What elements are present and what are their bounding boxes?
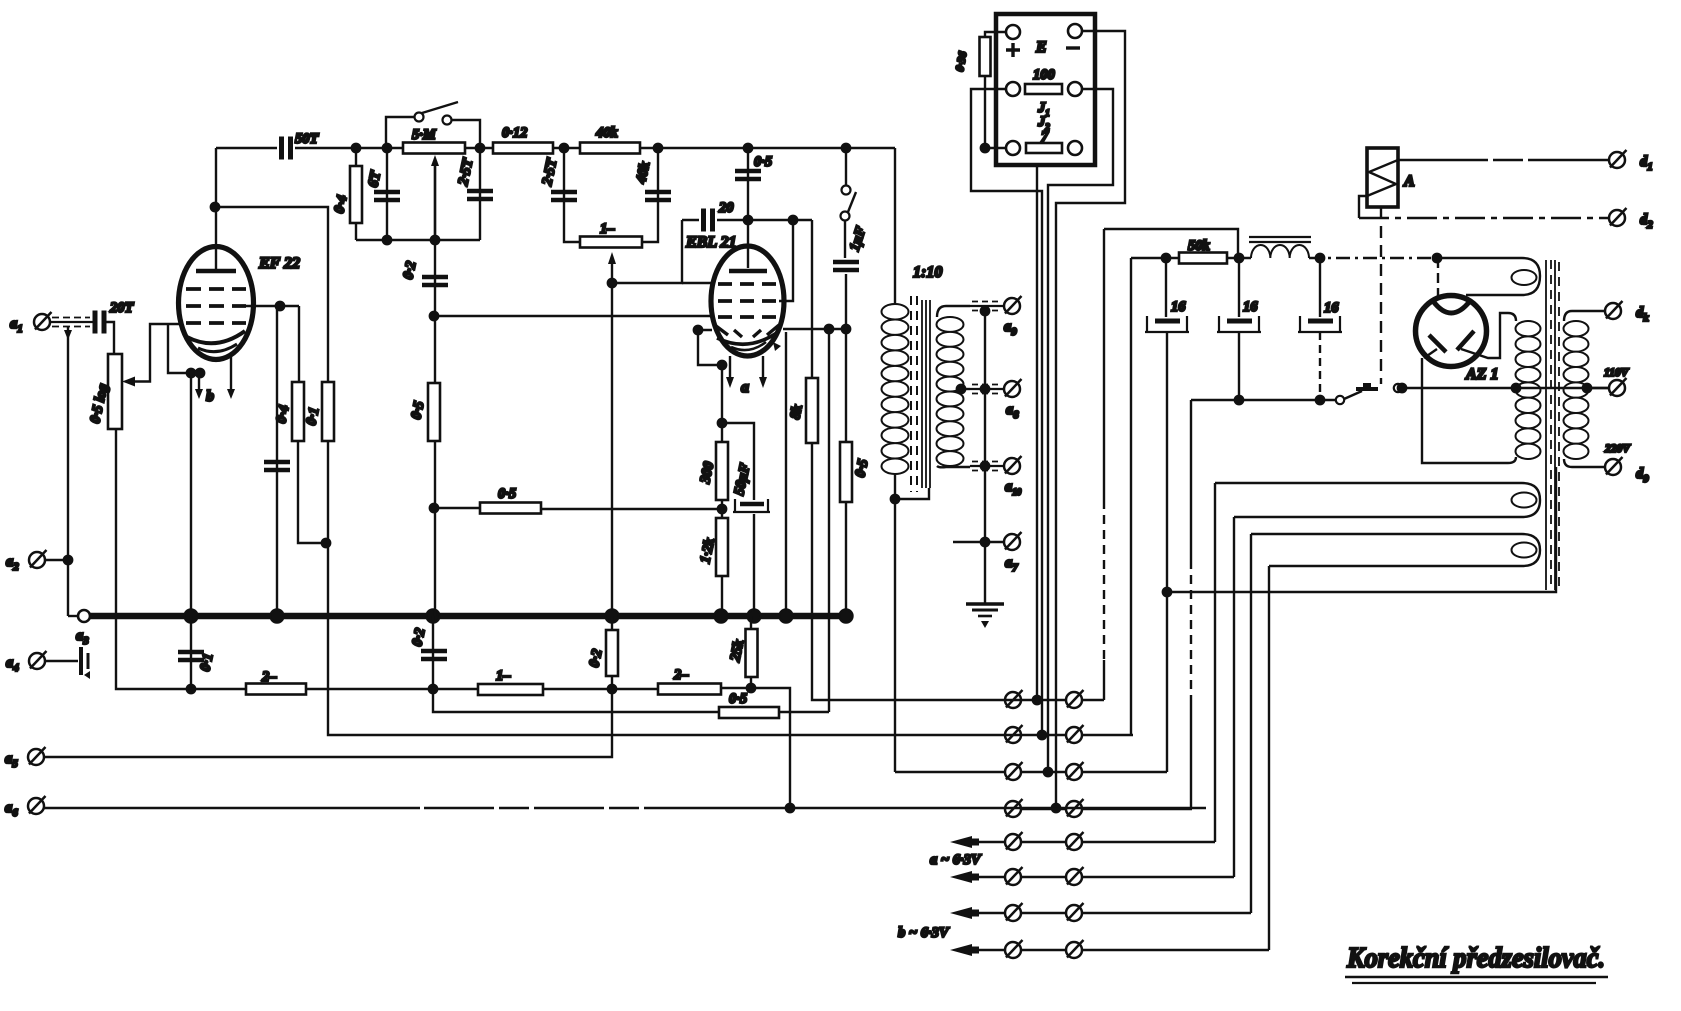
wire - 0.5k drop through bus to 0.5 resistor row [828,329,830,712]
wire - switch right leg [452,120,480,240]
svg-text:a10: a10 [1005,479,1022,497]
node a8 terminal [1004,379,1022,397]
wire - 1.2k to bus [721,500,723,616]
wire - 16 first to row3 junction [1166,332,1168,592]
wire - 50k to choke [1227,257,1251,259]
tube EF22 envelope [179,247,254,360]
svg-text:0·36: 0·36 [954,50,969,72]
svg-text:100: 100 [1033,67,1055,83]
wire - grid node to 20 cap corner [612,220,682,283]
resistor 300 [716,442,728,500]
terminal row8 pair [1005,940,1023,958]
capacitor 0.2 (below bus) [432,616,434,689]
wire - a9 shielded segment [970,305,1003,307]
capacitor 2.5T (right) [564,148,580,242]
svg-text:a7: a7 [1005,555,1018,574]
wire - row3 line [895,771,1167,773]
svg-text:5·M: 5·M [412,127,437,143]
wire - screen drop to grid2 [779,220,793,301]
svg-text:0·2: 0·2 [586,648,605,669]
terminal row5 pair [1005,832,1023,850]
svg-text:dk: dk [1636,305,1649,324]
wire - primary bottom to junction [894,474,896,499]
transformer filament band B [1251,534,1540,566]
svg-text:6T: 6T [365,169,384,189]
ground - chassis symbol at a4 [79,647,83,675]
wire - row2 line [1004,734,1133,736]
tube EBL21 anode bar [729,269,767,274]
ground bus (thick) [90,613,846,620]
capacitor 6T [386,148,388,240]
node a9 terminal [1004,296,1022,314]
wire - 0.12 to 40k [553,147,580,149]
wire - cap bus row to mains switch [1191,399,1335,401]
capacitor 16 (second) [1238,258,1240,317]
wire - a3 corner [68,615,78,617]
svg-text:16: 16 [1171,299,1186,315]
transformer 1:10 primary winding [882,304,909,474]
svg-text:1:10: 1:10 [913,264,942,281]
svg-text:EF 22: EF 22 [258,255,300,272]
svg-text:1–: 1– [496,668,511,684]
transformer mains winding [1564,321,1589,459]
wire - mains bottom to 220V d9 [1564,459,1604,467]
capacitor (screen bypass) [264,462,290,470]
svg-text:40k: 40k [633,159,654,185]
svg-text:0·1: 0·1 [197,652,216,673]
wire - pot wiper to EF22 grid [131,324,181,382]
resistor 8k [806,378,818,443]
svg-text:a4: a4 [6,655,19,674]
tube EBL21 cathode arcs [717,332,778,344]
resistor 0.5 (EBL21 side) [840,442,852,502]
wire - a1 shielded lead [50,321,93,323]
wire - 1- wiper to grid node [611,262,613,283]
wire - 1- to 2- right [543,688,658,690]
wire - top rail 50T to 5M [295,147,403,149]
wire - 8k to terminal row 1 [812,443,1004,700]
svg-text:a2: a2 [6,554,19,573]
svg-text:220V: 220V [1604,443,1631,455]
wire - band B leads down to rows 7/8 [1250,534,1252,913]
svg-text:a ~ 6·3V: a ~ 6·3V [930,852,982,868]
wire - primary bottom drop to row3 [894,499,896,772]
node a10 terminal [1004,456,1022,474]
node d2 terminal [1609,208,1627,226]
svg-text:2·5T: 2·5T [455,156,477,188]
switch (mains) [1336,396,1344,404]
resistor 0.5 (wiper chain) [428,383,440,441]
wire - anode feed corner to transformer [894,148,896,305]
wire - A box hook to d2 line [1359,196,1367,218]
node d1 terminal [1609,150,1627,168]
terminal row3 right [1066,762,1084,780]
wire - 2- row left segment [191,688,246,690]
wire - E bottom edge drop to row1 [1036,165,1038,700]
choke core bars [1249,236,1311,238]
resistor 0.36 [985,32,1006,37]
wire - 0.1 top to anode node [215,207,328,382]
node - a6 row junction [786,804,794,812]
node a3 terminal (open circle on bus) [78,610,90,622]
node a2 terminal [29,550,47,568]
wire - EF22 cathode to ground bus [190,373,192,616]
svg-text:0·5: 0·5 [852,458,871,479]
wire - switch left leg [386,117,414,148]
wire - g3 line to EBL21 [434,315,711,317]
capacitor 16 (first) [1165,258,1167,317]
svg-text:a1: a1 [10,316,23,335]
resistor 0.5 (feedback) [719,707,779,718]
label - [1066,46,1080,49]
resistor 0.4 [292,382,304,441]
tube EF22 anode bar [196,269,236,274]
resistor 50k [1131,257,1179,259]
wire - a7 stub [953,541,1003,543]
wire - bottom rail of tone block [356,239,480,241]
label + [1006,43,1020,57]
wire - g2 bypass drop [276,306,278,616]
node a4 terminal [29,651,47,669]
wire - 5M to 0.12 [465,147,493,149]
transformer 1:10 core [910,296,912,492]
terminal row1 left [1005,690,1023,708]
svg-text:110V: 110V [1604,367,1630,379]
wire - 0.4 bottom elbow [298,441,328,543]
wire a4 to chassis ground [45,660,78,662]
transformer 1:10 shield [921,300,923,488]
wire - 0.5 tap left [434,507,480,509]
resistor 0.5 (cathode tap) [480,503,541,514]
wire - grid node to EBL21 grid1 [682,282,711,284]
fuse A zigzag [1367,160,1398,196]
svg-text:0·5: 0·5 [754,154,772,170]
capacitor 16 (third) [1319,258,1321,317]
node a5 terminal [28,747,46,765]
wire - grid line down to cathode junction [168,324,200,373]
svg-text:50k: 50k [1188,238,1211,254]
tube EBL21 envelope [711,246,784,356]
transformer HV winding [1516,321,1541,459]
svg-text:1–: 1– [600,221,615,237]
resistor (in block bottom) [1026,143,1062,153]
wire - 20 cap left lead [682,219,699,221]
wire - filament pin b arrows [198,375,200,390]
svg-text:0·2: 0·2 [400,260,419,281]
resistor 2- (right) [658,684,721,695]
wire a6 long line to terminal row 4 [44,807,420,809]
svg-text:AZ 1: AZ 1 [1465,366,1498,383]
wire - E top-right route to row4 [1056,31,1125,808]
wire - 20T to potentiometer top [104,322,114,354]
node a7 terminal [1004,532,1022,550]
wire - 2- to 1- row [306,688,478,690]
terminal row2 left [1005,725,1023,743]
capacitor 20T [95,311,104,334]
resistor 0.1 [322,382,334,441]
wire - 1uF to diode row and bus [845,274,847,616]
switch (tone, top) [415,113,424,122]
transformer core [1545,260,1547,590]
potentiometer 0.5 log [108,354,122,429]
svg-text:0·4: 0·4 [273,404,292,425]
node - rectifier output junction [1433,254,1441,262]
svg-text:0·5: 0·5 [498,486,516,502]
wire - 2- right to corner drop [721,688,790,808]
svg-text:d2: d2 [1640,212,1653,231]
svg-text:16: 16 [1243,299,1258,315]
resistor 1- (tone) [580,237,642,248]
wire - switch to HV center tap and 110V [1402,387,1609,389]
switch (output, 1uF) [845,148,847,186]
tube AZ1 envelope [1416,296,1487,367]
svg-text:0·4: 0·4 [331,194,350,215]
node 110V terminal [1609,378,1627,396]
resistor 0.4 (top left vertical) [350,166,362,223]
wire - common return vertical [984,308,986,604]
terminal row2 right [1066,725,1084,743]
node d9 terminal [1605,457,1623,475]
resistor 0.2 (below bus right) [611,616,613,689]
wire - d1 line [1398,159,1608,161]
wire - 8k feed corner [811,220,813,378]
wire - 40k to anode feed [640,147,895,149]
resistor 5M [403,143,465,154]
svg-text:0·5: 0·5 [729,691,747,707]
terminal block E outline [996,14,1095,165]
wire - secondary mid tap a8 [957,385,965,393]
terminal row4 left [1005,799,1023,817]
svg-text:a: a [741,379,749,396]
wire - cathode tap row 0.5 [541,508,723,510]
wire a5 line to 0.2 junction [44,689,612,757]
tube AZ1 filament arc [1433,301,1470,313]
wire - pot bottom drop to 2- row [116,429,191,689]
capacitor 20 (NFB) [704,209,713,232]
node a6 terminal [28,796,46,814]
svg-text:300: 300 [697,460,717,486]
terminal row7 pair [1005,903,1023,921]
svg-text:b ~ 6·3V: b ~ 6·3V [898,925,950,941]
svg-text:a6: a6 [5,800,18,819]
svg-text:a8: a8 [1006,402,1019,421]
wire - EBL21 filament pins with arrows [729,356,731,378]
resistor 1- (bottom) [478,684,543,695]
wire - 0.5 feedback right corner [779,711,829,713]
wire - 0.36 to block bottom-left [985,76,1006,148]
wire - junction down to row 3 [1166,592,1168,772]
svg-text:2–: 2– [261,669,277,685]
wire - primary bottom hook to shield [895,488,929,499]
wire - EF22 g2 row to bypass cap drop [246,305,299,307]
wire - 50k left drop to row2 [1130,258,1132,735]
wire - EBL21 cathode hook [698,330,722,365]
capacitor 0.1 (bus left) [190,616,192,689]
ground symbol [966,602,1004,606]
wire - row4 line [1022,808,1192,810]
wire - secondary bottom lead a10 [937,466,970,467]
wire - B+ riser to 50k rail [1103,229,1105,500]
wire - 50uF to bus [753,514,755,616]
wire - mains top to dk [1564,311,1604,321]
capacitor 0.2 (5M wiper chain) [434,162,436,616]
capacitor 2.5T (left) [467,191,493,199]
wire - a1 shield drop to a2/a3 [67,326,69,616]
svg-text:1μF: 1μF [847,224,870,253]
wire - g2 feed via 0.4 resistor [298,306,300,382]
svg-text:a9: a9 [1004,319,1017,338]
transformer 1:10 secondary winding [937,317,964,466]
wire - 0.5 feedback row [433,689,719,712]
wire - left plate lead to HV bottom [1422,349,1516,463]
svg-text:EBL 21: EBL 21 [685,234,737,251]
node - bus junction dots [185,610,198,623]
terminal row4 right [1066,799,1084,817]
svg-text:0·2: 0·2 [409,627,428,648]
terminal row6 pair [1005,867,1023,885]
svg-text:d1: d1 [1640,154,1653,173]
tube EF22 grid rows [186,287,246,291]
terminal block E screws [1006,25,1020,39]
wire - rows 5-8 heater lines with arrows [978,841,1215,843]
fuse A box [1367,148,1398,207]
wire - long drop from 1- wiper to bus [611,283,613,616]
svg-text:50T: 50T [295,131,320,147]
terminal row3 left [1005,762,1023,780]
svg-text:0·12: 0·12 [502,125,527,141]
wire - AZ1 top lead [1437,258,1439,297]
wire - diode plate lead row [783,328,846,330]
wire - diode lead drop to bus [785,332,787,616]
wire - EF22 anode up to 50T node [215,148,217,271]
wire - row1 B+ row [1004,699,1065,701]
svg-text:Korekční předzesilovač.: Korekční předzesilovač. [1346,942,1605,974]
transformer output band top (filament winding) [1437,258,1540,295]
resistor 2- (left) [246,684,306,695]
node a1 input terminal [34,312,52,330]
node dk terminal [1605,301,1623,319]
node - 0.1 cap bottom junction [187,685,195,693]
wire - E mid-right route to row3 [1048,89,1113,772]
wire - 0.1 bottom long drop to row2 [328,441,1004,735]
svg-text:E: E [1035,39,1047,56]
tube EF22 cathode arcs [187,331,245,343]
svg-text:16: 16 [1324,300,1339,316]
wire - fuse linkage (dashed) [1380,207,1382,384]
inductor choke [1251,245,1309,258]
capacitor 0.5 (plate to rail) [747,148,749,268]
wire - secondary top lead a9 [937,306,970,317]
svg-text:20: 20 [718,200,734,216]
wire - 50uF branch [722,423,754,500]
tube AZ1 plates [1429,335,1446,352]
svg-text:0·1: 0·1 [303,406,322,427]
wire - mains center tap 110V [1589,387,1608,389]
node - EF22 cathode junctions [187,369,195,377]
svg-text:A: A [1403,173,1415,190]
svg-text:a3: a3 [76,628,89,647]
svg-text:20T: 20T [109,300,135,316]
wire - y592 line to transformer [1167,467,1556,592]
capacitor 50uF (electrolytic) [740,502,764,507]
transformer filament band A [1215,483,1540,517]
svg-text:a5: a5 [5,751,18,770]
resistor 40k (horizontal) [580,143,640,154]
resistor 1.2k [716,518,728,576]
wire - choke to AZ1 node (dash-dot) [1309,257,1437,259]
wire - cathode chain down [721,365,723,442]
wire - plate node row [717,219,812,221]
resistor 100 (in block) [1025,84,1062,94]
wire - right plate lead to HV top [1461,313,1516,358]
capacitor 40k (vertical) [642,148,658,242]
svg-text:b: b [206,388,214,405]
resistor 25k [750,616,752,688]
resistor 0.12 [493,143,553,154]
tube EBL21 grid rows [718,282,778,286]
capacitor 50T (series) [216,147,277,149]
wire - cap bus drop to row4 [1190,400,1192,560]
svg-text:d9: d9 [1636,466,1649,485]
svg-text:8k: 8k [787,403,806,421]
svg-text:2–: 2– [673,667,689,683]
wire - 5M wiper arm [434,162,436,240]
wire - d2 line (dash-dot) [1359,217,1608,219]
capacitor 1uF [844,220,846,258]
wire - E mid-left outer route to row2 [971,89,1042,735]
tube EBL21 diode plates [716,326,728,335]
svg-text:40k: 40k [595,125,619,141]
svg-text:50μF: 50μF [731,462,753,497]
svg-text:0·5: 0·5 [408,400,427,421]
terminal row1 right [1066,690,1084,708]
wire - band A leads down to rows 5/6 [1214,483,1216,842]
wire a2 to shield drop [45,559,68,561]
svg-text:2·5T: 2·5T [539,156,561,188]
